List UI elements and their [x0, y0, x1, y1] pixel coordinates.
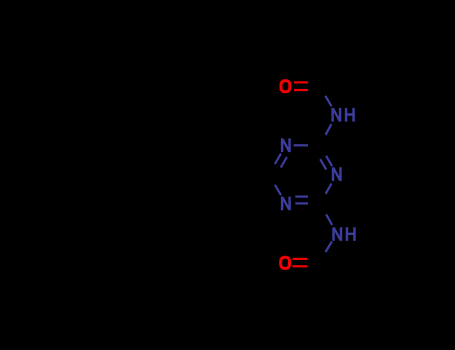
bond C8-N7 (amide C-N, blue half near N7) — [325, 96, 331, 107]
bond N10-C11 (amide N-C, blue half near N10) — [326, 242, 332, 253]
ring bond N3-C4 (lower-right edge, blue half near N3) — [326, 184, 332, 194]
atom N10 label "NH" (bottom amide nitrogen) — [332, 227, 355, 241]
atom N1 label (ring nitrogen, top-left) — [281, 138, 291, 152]
ring bond C6-N5 (lower-left edge, blue half near N5) — [275, 185, 281, 195]
bond C4-N10 (ring to amide N, blue half near N10) — [326, 214, 332, 225]
bond C11=O12 double bond lower line (red half) — [293, 265, 308, 267]
ring bond C2=N3 inner double line (blue half near N3) — [320, 159, 326, 169]
ring bond C2=N3 main line (upper-right edge, blue half near N3) — [326, 156, 332, 166]
ring bond N1-C2 (top edge, blue half near N1) — [294, 144, 309, 146]
atom O12 label (bottom carbonyl oxygen) — [281, 257, 290, 268]
atom N5 label (ring nitrogen, bottom-left) — [281, 197, 291, 211]
atom N3 label (ring nitrogen, right) — [332, 167, 342, 181]
atom O9 label (top carbonyl oxygen) — [281, 81, 290, 92]
bond C8=O9 double bond lower line (red half) — [294, 89, 308, 91]
bond N7-C2 (to ring, blue half near N7) — [326, 124, 332, 135]
bond C8=O9 double bond upper line (red half) — [294, 81, 308, 83]
ring bond N1=C6 main line (upper-left edge, blue half near N1) — [275, 154, 281, 164]
atom N7 label "NH" (top amide nitrogen) — [331, 108, 354, 122]
bond C11=O12 double bond upper line (red half) — [293, 258, 308, 260]
ring bond N5=C4 inner double line (blue half near N5) — [295, 196, 308, 198]
ring bond N1=C6 inner double line (blue half near N1) — [281, 157, 287, 167]
ring bond N5=C4 main line (bottom edge, blue half near N5) — [295, 202, 308, 204]
